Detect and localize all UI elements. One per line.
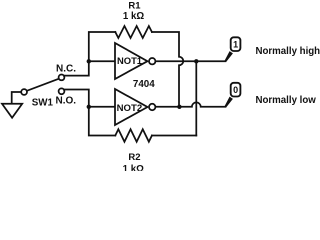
svg-text:NOT1: NOT1 — [117, 55, 142, 66]
wire NOT2 input — [89, 106, 115, 108]
svg-text:Normally high: Normally high — [256, 46, 320, 57]
svg-text:SW1: SW1 — [32, 98, 54, 109]
svg-text:R2: R2 — [128, 152, 140, 163]
svg-text:1 kΩ: 1 kΩ — [123, 164, 144, 171]
inverter NOT2 triangle — [115, 89, 148, 125]
switch SW1 N.C. contact — [59, 75, 65, 81]
inverter NOT1 triangle — [115, 43, 148, 79]
output flag 1 box — [231, 37, 241, 51]
svg-text:Normally low: Normally low — [256, 95, 317, 106]
wire NOT1 input — [89, 60, 115, 62]
inverter NOT1 bubble — [149, 58, 155, 64]
inverter NOT2 bubble — [149, 104, 155, 110]
wire node A to R1 left — [89, 32, 116, 61]
output flag 1 connector — [225, 51, 233, 62]
wire N.O. contact to NOT2 input node — [64, 90, 89, 107]
resistor R1 — [115, 26, 152, 38]
svg-text:N.O.: N.O. — [56, 95, 77, 106]
wire R2 to right vertical — [152, 135, 196, 137]
svg-text:7404: 7404 — [133, 79, 155, 90]
resistor R2 — [115, 129, 152, 142]
junction node NOT1 input — [87, 59, 91, 63]
output flag 0 box — [231, 83, 241, 97]
wire N.C. contact to NOT1 input node — [64, 61, 89, 75]
wire NOT2 output (hop over vertical wire) — [155, 102, 225, 106]
svg-text:N.C.: N.C. — [56, 63, 76, 74]
junction node NOT2 input — [87, 105, 91, 109]
svg-text:0: 0 — [233, 85, 238, 95]
wire NOT1 output node to R2 right (vertical) — [195, 61, 197, 135]
switch SW1 pole contact — [21, 89, 27, 95]
wire NOT1 output — [155, 60, 225, 62]
junction node NOT2 output — [177, 105, 181, 109]
svg-text:NOT2: NOT2 — [117, 103, 143, 114]
switch SW1 N.O. contact — [59, 88, 65, 94]
switch SW1 lever — [27, 79, 59, 91]
ground — [2, 92, 22, 118]
output flag 0 connector — [225, 97, 233, 108]
wire node B to R2 left — [89, 107, 116, 136]
junction node NOT1 output — [194, 59, 198, 63]
svg-text:1 kΩ: 1 kΩ — [123, 11, 144, 22]
wire R1 right to NOT2 output node (vertical with hop over NOT1 output) — [152, 32, 183, 107]
svg-text:1: 1 — [233, 40, 238, 50]
